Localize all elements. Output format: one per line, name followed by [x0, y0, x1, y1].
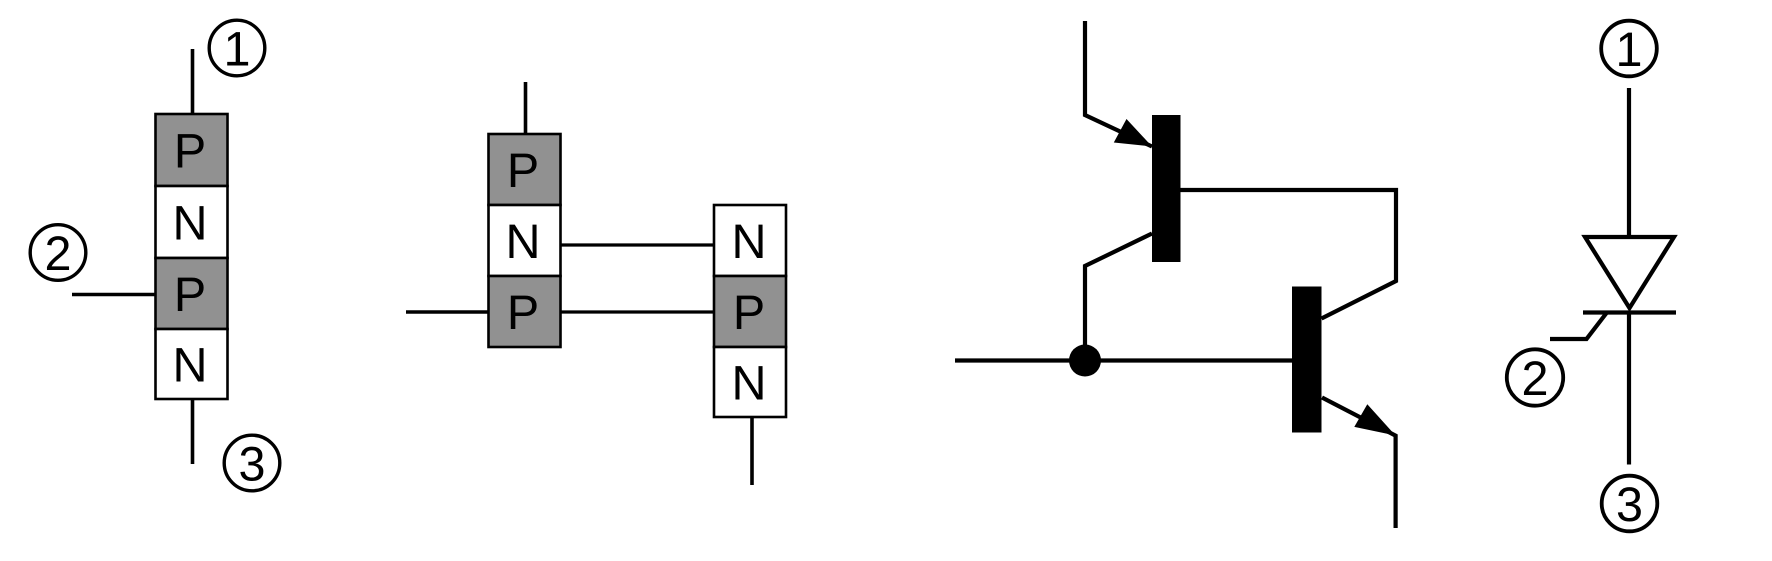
N layer box (second, figure A) [156, 186, 228, 258]
wire anode lead (figure D) [1627, 88, 1631, 237]
N layer box (top of right stack, figure B) [714, 205, 786, 276]
node 1 terminal circle (figure A) [209, 20, 265, 76]
N layer box (bottom, figure A) [156, 329, 228, 399]
gate lead (figure D) [1550, 313, 1607, 339]
wire gate lead (left, figure A) [72, 293, 156, 297]
SCR triangle (anode to cathode) [1585, 237, 1674, 308]
node 2 terminal circle (figure A) [30, 225, 86, 281]
wire cathode lead (bottom, figure B) [750, 417, 754, 485]
wire anode lead (top, figure A) [191, 49, 195, 114]
wire N-N interconnection (figure B) [561, 243, 715, 246]
P layer box (top, figure A) [156, 114, 228, 186]
wire Q2 emitter lead [1322, 398, 1396, 529]
arrowhead Q2 emitter (points away from base bar) [1354, 404, 1395, 435]
wire cathode lead (bottom, figure A) [191, 399, 195, 464]
P layer box (bottom of left stack, figure B) [489, 276, 561, 347]
wire anode lead (top, figure B) [524, 82, 528, 134]
node 3 terminal circle (figure D) [1602, 476, 1658, 532]
P layer box (top of left stack, figure B) [489, 134, 561, 205]
node 3 terminal circle (figure A) [224, 435, 280, 491]
wire P-P interconnection (figure B) [561, 310, 715, 313]
wire Q1 emitter lead vertical [1085, 21, 1152, 147]
node 2 terminal circle (figure D) [1507, 349, 1563, 405]
wire Q1 collector down to gate node [1085, 234, 1152, 361]
wire gate lead (horizontal, figure C) [955, 358, 1292, 362]
cathode bar [1583, 310, 1676, 314]
wire cathode lead (figure D) [1627, 313, 1631, 465]
wire gate lead (left, figure B) [406, 310, 489, 314]
junction dot at gate node [1069, 345, 1101, 377]
transistor Q1 base bar (PNP, upper) [1152, 115, 1181, 262]
N layer box (bottom of right stack, figure B) [714, 347, 786, 417]
wire Q1 base to Q2 collector [1181, 190, 1397, 319]
node 1 terminal circle (figure D) [1601, 21, 1657, 77]
transistor Q2 base bar (NPN, lower) [1292, 287, 1322, 433]
P layer box (middle of right stack, figure B) [714, 276, 786, 347]
arrowhead Q1 emitter (points into base bar) [1114, 119, 1152, 147]
P layer box (third, figure A) [156, 258, 228, 329]
N layer box (middle of left stack, figure B) [489, 205, 561, 276]
